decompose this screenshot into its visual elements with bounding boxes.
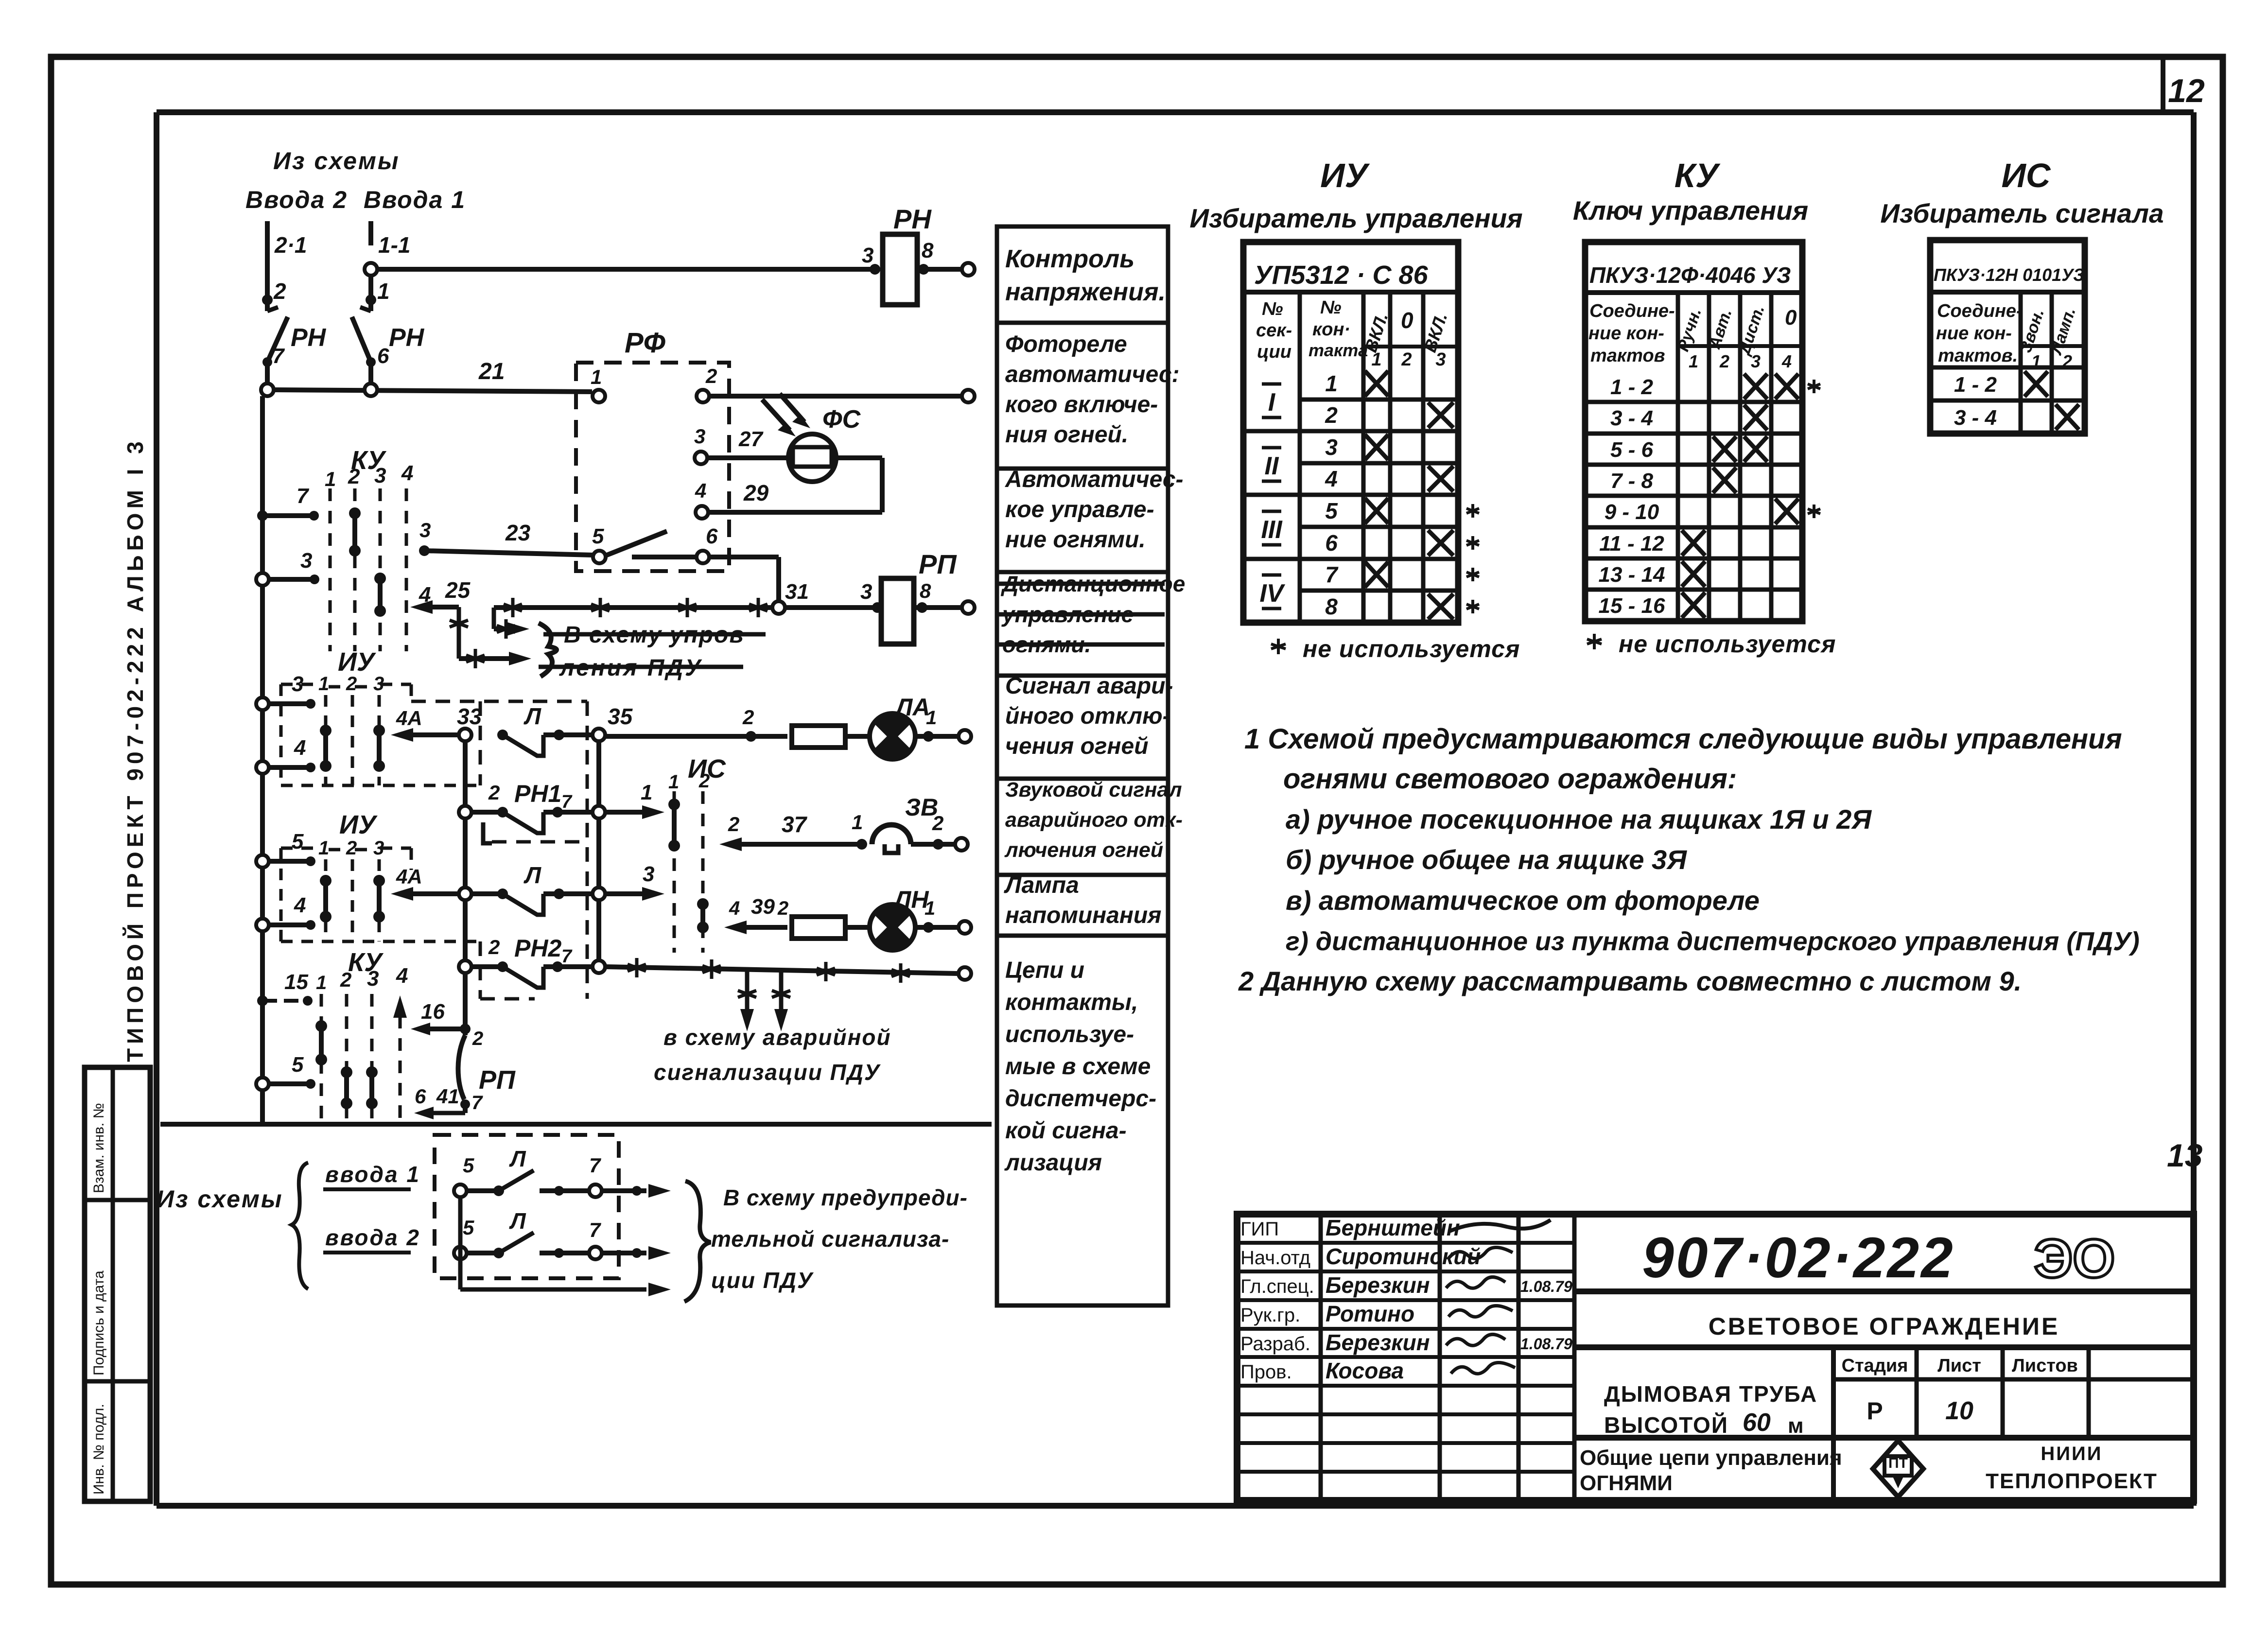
crossed text В схему управ bbox=[543, 622, 766, 648]
crossed text ления ПДУ bbox=[539, 655, 743, 681]
svg-text:1 - 2: 1 - 2 bbox=[1954, 373, 1997, 397]
selector ИУ group 2 label bbox=[339, 810, 378, 839]
text В схему предупреди- bbox=[723, 1185, 968, 1210]
svg-text:23: 23 bbox=[505, 520, 531, 545]
svg-text:2: 2 bbox=[1401, 349, 1412, 370]
svg-text:Нач.отд: Нач.отд bbox=[1240, 1247, 1310, 1269]
selector ИУ group 1 label bbox=[338, 647, 376, 677]
svg-text:2: 2 bbox=[340, 968, 351, 991]
svg-text:3 - 4: 3 - 4 bbox=[1610, 406, 1653, 430]
svg-text:РП: РП bbox=[479, 1065, 516, 1095]
svg-text:№: № bbox=[1320, 297, 1342, 318]
svg-text:В схему предупреди-: В схему предупреди- bbox=[723, 1185, 968, 1210]
svg-text:1-1: 1-1 bbox=[378, 232, 410, 258]
svg-text:2: 2 bbox=[346, 673, 357, 695]
column text Фотореле bbox=[1005, 331, 1180, 448]
svg-text:Березкин: Березкин bbox=[1326, 1272, 1430, 1298]
svg-text:КУ: КУ bbox=[1675, 157, 1721, 194]
wire ФС to pin 4 (29) bbox=[695, 458, 882, 519]
table КУ title bbox=[1573, 157, 1808, 226]
title block signature table bbox=[1237, 1214, 1574, 1500]
svg-text:сек-: сек- bbox=[1256, 320, 1292, 341]
svg-text:1: 1 bbox=[318, 837, 329, 859]
svg-text:4: 4 bbox=[401, 461, 413, 485]
svg-text:ние кон-: ние кон- bbox=[1588, 323, 1664, 344]
svg-text:5: 5 bbox=[1325, 498, 1338, 523]
svg-text:5: 5 bbox=[592, 524, 604, 548]
input 1 contact Л bbox=[454, 1146, 671, 1198]
КУ1 dashed contact columns bbox=[325, 461, 413, 651]
svg-text:СВЕТОВОЕ ОГРАЖДЕНИЕ: СВЕТОВОЕ ОГРАЖДЕНИЕ bbox=[1709, 1313, 2060, 1340]
L mark under РН1 bbox=[483, 822, 492, 843]
svg-text:1: 1 bbox=[1371, 349, 1381, 370]
note 1 line 1 bbox=[1244, 723, 2122, 755]
svg-text:Лампа: Лампа bbox=[1004, 872, 1079, 898]
contact РП bbox=[414, 1035, 516, 1119]
input bypass wire bbox=[460, 1197, 671, 1296]
svg-text:ЛА: ЛА bbox=[894, 694, 930, 721]
svg-text:огнями светового ограждения:: огнями светового ограждения: bbox=[1283, 763, 1737, 795]
schematic bottom bus line bbox=[160, 1122, 992, 1127]
selector ИС label bbox=[688, 754, 726, 783]
brace { inputs bbox=[292, 1163, 308, 1289]
svg-text:7: 7 bbox=[272, 344, 285, 368]
svg-text:Лист: Лист bbox=[1937, 1356, 1981, 1376]
footnote КУ bbox=[1587, 630, 1836, 658]
table КУ bbox=[1585, 242, 1820, 621]
label Ввода 1 bbox=[364, 186, 466, 213]
svg-text:Бернштейн: Бернштейн bbox=[1326, 1215, 1460, 1240]
svg-text:4: 4 bbox=[695, 479, 706, 502]
label ввода 1 bbox=[323, 1162, 420, 1189]
resistor (ЛН row) bbox=[792, 917, 870, 939]
contact РН2 bbox=[459, 935, 593, 988]
title block document number 907-02-222 ЭО bbox=[1574, 1226, 2194, 1291]
svg-text:11 - 12: 11 - 12 bbox=[1599, 532, 1664, 556]
wire to lamp ЛА bbox=[605, 706, 787, 742]
svg-text:3: 3 bbox=[862, 244, 873, 267]
svg-text:33: 33 bbox=[457, 704, 482, 729]
svg-text:Л: Л bbox=[509, 1208, 526, 1234]
КУ1 contact 3 bbox=[374, 573, 386, 617]
svg-text:3: 3 bbox=[694, 425, 705, 448]
ИУ2 contact column 3 bbox=[373, 875, 385, 922]
svg-text:ние огнями.: ние огнями. bbox=[1005, 527, 1146, 553]
lamp ЛН bbox=[870, 886, 971, 950]
svg-text:кой сигна-: кой сигна- bbox=[1005, 1118, 1127, 1144]
svg-text:Общие цепи управления: Общие цепи управления bbox=[1580, 1446, 1842, 1470]
branch wire 7 bbox=[257, 484, 319, 521]
svg-text:ции ПДУ: ции ПДУ bbox=[711, 1268, 814, 1293]
svg-text:4: 4 bbox=[1325, 466, 1338, 491]
svg-text:НИИИ: НИИИ bbox=[2041, 1443, 2102, 1464]
svg-text:16: 16 bbox=[421, 1000, 445, 1024]
svg-text:лючения огней: лючения огней bbox=[1004, 838, 1163, 862]
wire 4А (lower) bbox=[391, 865, 459, 901]
svg-text:41: 41 bbox=[436, 1085, 459, 1108]
svg-text:I: I bbox=[1268, 388, 1276, 417]
svg-text:7: 7 bbox=[1325, 562, 1339, 587]
svg-text:аварийного отк-: аварийного отк- bbox=[1005, 808, 1183, 832]
svg-text:РН: РН bbox=[389, 324, 425, 352]
photocell ФС bbox=[762, 394, 861, 482]
svg-text:Избиратель управления: Избиратель управления bbox=[1189, 203, 1522, 233]
bus wire 21 bbox=[261, 359, 592, 396]
svg-text:тельной сигнализа-: тельной сигнализа- bbox=[711, 1226, 949, 1252]
svg-text:Соедине-: Соедине- bbox=[1589, 301, 1675, 321]
svg-text:ЭО: ЭО bbox=[2034, 1228, 2115, 1289]
svg-text:7: 7 bbox=[589, 1154, 601, 1177]
svg-text:7: 7 bbox=[589, 1218, 601, 1241]
svg-text:2: 2 bbox=[1719, 351, 1729, 371]
svg-text:2: 2 bbox=[698, 770, 710, 792]
vertical link bus x1232 bbox=[596, 741, 601, 967]
svg-text:1: 1 bbox=[325, 468, 336, 490]
contact Л (upper) bbox=[497, 704, 593, 756]
svg-text:13: 13 bbox=[2167, 1137, 2202, 1173]
left margin table bbox=[85, 1067, 150, 1501]
svg-text:2: 2 bbox=[777, 898, 788, 919]
table ИУ title bbox=[1189, 157, 1522, 233]
alarm branch down 1 bbox=[738, 970, 756, 1031]
column text Звуковой сигнал bbox=[1004, 778, 1183, 862]
svg-text:1: 1 bbox=[925, 898, 935, 919]
column text Контроль напряжения bbox=[1005, 245, 1166, 306]
svg-text:ЛН: ЛН bbox=[893, 886, 929, 913]
contact Л (lower) bbox=[459, 863, 593, 915]
svg-text:Р: Р bbox=[1867, 1397, 1883, 1425]
wire feeder 1 vertical bbox=[365, 221, 410, 311]
svg-text:ДЫМОВАЯ ТРУБА: ДЫМОВАЯ ТРУБА bbox=[1604, 1381, 1817, 1407]
svg-text:Инв. № подл.: Инв. № подл. bbox=[91, 1404, 107, 1495]
svg-text:ВЫСОТОЙ: ВЫСОТОЙ bbox=[1604, 1412, 1728, 1438]
svg-text:Сиротинский: Сиротинский bbox=[1326, 1244, 1481, 1269]
svg-text:ние кон-: ние кон- bbox=[1936, 323, 2012, 344]
inner drawing frame bbox=[157, 112, 2194, 1506]
svg-text:8: 8 bbox=[922, 239, 934, 262]
svg-text:ИУ: ИУ bbox=[339, 810, 378, 839]
КУ2 contact col1 bbox=[315, 1020, 327, 1065]
column text Лампа напоминания bbox=[1004, 872, 1161, 928]
svg-text:1 Схемой предусматриваются: 1 Схемой предусматриваются следующие вид… bbox=[1244, 723, 2122, 755]
svg-text:3: 3 bbox=[1751, 351, 1761, 371]
title block frame bbox=[1237, 1214, 2194, 1500]
svg-text:4: 4 bbox=[294, 736, 306, 760]
key КУ group 2 label bbox=[348, 948, 384, 977]
svg-text:Фотореле: Фотореле bbox=[1005, 331, 1127, 357]
svg-text:Подпись и дата: Подпись и дата bbox=[91, 1271, 107, 1375]
description column boxes bbox=[997, 226, 1168, 1305]
note 1 item в bbox=[1286, 885, 1760, 916]
svg-text:4: 4 bbox=[419, 583, 431, 607]
branch wire 4 (ИУ1) bbox=[256, 736, 315, 774]
branch wire 4 (ИУ2) bbox=[256, 893, 315, 931]
svg-text:РФ: РФ bbox=[625, 327, 666, 359]
svg-text:Пров.: Пров. bbox=[1240, 1361, 1292, 1383]
КУ1 contact 2 bbox=[349, 507, 361, 557]
svg-text:4: 4 bbox=[396, 964, 408, 988]
svg-text:II: II bbox=[1265, 452, 1279, 480]
svg-text:не используется: не используется bbox=[1303, 635, 1520, 662]
relay coil РП bbox=[881, 549, 975, 644]
svg-text:2: 2 bbox=[742, 706, 754, 729]
svg-text:Стадия: Стадия bbox=[1842, 1356, 1908, 1376]
node РН2 right bbox=[593, 960, 605, 973]
label Ввода 2 bbox=[245, 186, 348, 213]
РФ pin 1 bbox=[591, 365, 605, 402]
wire 31 to relay РП bbox=[785, 580, 883, 613]
svg-text:7: 7 bbox=[561, 946, 573, 967]
svg-text:ния огней.: ния огней. bbox=[1005, 422, 1128, 448]
svg-text:Л: Л bbox=[509, 1146, 526, 1171]
ИУ1 contact column 3 bbox=[373, 725, 385, 772]
svg-text:ввода 1: ввода 1 bbox=[325, 1162, 420, 1187]
footnote ИУ bbox=[1271, 635, 1520, 662]
svg-text:3: 3 bbox=[1435, 349, 1446, 370]
svg-text:2: 2 bbox=[705, 365, 717, 387]
table ИС bbox=[1930, 240, 2085, 434]
svg-text:2·1: 2·1 bbox=[274, 232, 307, 258]
svg-text:3: 3 bbox=[300, 549, 312, 573]
ИС contact column 2 bbox=[697, 898, 709, 933]
svg-text:РН: РН bbox=[893, 204, 932, 234]
svg-text:Л: Л bbox=[523, 863, 541, 888]
svg-text:м: м bbox=[1788, 1414, 1804, 1438]
svg-text:используе-: используе- bbox=[1005, 1022, 1134, 1047]
КУ2 dashed columns 1-4 bbox=[316, 964, 408, 1124]
svg-text:не используется: не используется bbox=[1619, 630, 1836, 658]
svg-text:РН1: РН1 bbox=[514, 780, 561, 807]
svg-text:1: 1 bbox=[318, 673, 329, 695]
РФ pin 2 wire bbox=[697, 365, 975, 402]
svg-text:2: 2 bbox=[488, 936, 500, 958]
branch wire 5 (ИУ2) bbox=[256, 830, 315, 868]
key КУ group 1 label bbox=[351, 446, 386, 475]
svg-text:7: 7 bbox=[471, 1092, 483, 1114]
svg-text:3: 3 bbox=[643, 862, 654, 886]
svg-text:3 - 4: 3 - 4 bbox=[1954, 406, 1997, 430]
label Из схемы (top) bbox=[273, 147, 400, 174]
svg-text:диспетчерс-: диспетчерс- bbox=[1005, 1086, 1156, 1112]
table ИС title bbox=[1880, 157, 2163, 228]
branch wire 15 bbox=[257, 970, 313, 1006]
table ИУ bbox=[1243, 242, 1479, 623]
wire 16 bbox=[411, 1000, 483, 1049]
svg-text:Листов: Листов bbox=[2012, 1356, 2078, 1376]
wire 4А-33 (upper) bbox=[391, 704, 482, 742]
svg-text:2 Данную схему рассматривать: 2 Данную схему рассматривать совместно с… bbox=[1238, 966, 2022, 996]
svg-text:Гл.спец.: Гл.спец. bbox=[1240, 1276, 1314, 1297]
svg-text:4: 4 bbox=[1781, 351, 1792, 371]
svg-text:1.08.79: 1.08.79 bbox=[1520, 1335, 1572, 1353]
note 1 item б bbox=[1286, 844, 1687, 875]
ИС dashed columns bbox=[668, 770, 710, 953]
svg-text:Рук.гр.: Рук.гр. bbox=[1240, 1305, 1300, 1326]
organization name bbox=[1986, 1443, 2158, 1493]
svg-text:Из схемы: Из схемы bbox=[157, 1185, 283, 1213]
svg-text:Л: Л bbox=[523, 704, 541, 730]
svg-text:6: 6 bbox=[377, 344, 389, 368]
column text Сигнал аварийного bbox=[1005, 673, 1173, 759]
svg-text:4: 4 bbox=[294, 893, 306, 917]
svg-text:7: 7 bbox=[297, 484, 310, 508]
svg-text:такта: такта bbox=[1308, 340, 1368, 360]
svg-text:3: 3 bbox=[367, 967, 379, 991]
svg-text:РН2: РН2 bbox=[514, 935, 561, 962]
svg-text:йного отклю-: йного отклю- bbox=[1005, 703, 1170, 729]
svg-text:Ключ управления: Ключ управления bbox=[1573, 195, 1808, 226]
svg-text:чения огней: чения огней bbox=[1005, 733, 1149, 759]
title block stage-sheet header bbox=[1833, 1347, 2194, 1438]
relay РФ dashed box bbox=[576, 327, 729, 571]
svg-text:4: 4 bbox=[729, 898, 740, 919]
node 35 bbox=[593, 704, 633, 741]
wire 31 star line bbox=[494, 598, 772, 639]
left margin label Подпись и дата bbox=[91, 1271, 107, 1375]
svg-text:25: 25 bbox=[445, 577, 471, 603]
wire 23 to РФ pin5 bbox=[419, 519, 593, 556]
svg-text:напоминания: напоминания bbox=[1005, 903, 1161, 928]
svg-text:в схему аварийной: в схему аварийной bbox=[663, 1025, 891, 1050]
svg-text:2: 2 bbox=[728, 813, 739, 835]
wire 37 to bell bbox=[719, 811, 867, 851]
svg-text:Избиратель сигнала: Избиратель сигнала bbox=[1880, 198, 2163, 228]
resistor (ЛА row) bbox=[792, 726, 870, 748]
svg-text:мые в схеме: мые в схеме bbox=[1005, 1054, 1151, 1079]
svg-text:27: 27 bbox=[738, 427, 764, 451]
vertical link bus x957 bbox=[463, 741, 468, 1035]
title block СВЕТОВОЕ ОГРАЖДЕНИЕ bbox=[1574, 1313, 2194, 1347]
svg-text:6: 6 bbox=[415, 1085, 426, 1108]
svg-text:5: 5 bbox=[463, 1154, 474, 1177]
svg-text:Автоматичес-: Автоматичес- bbox=[1005, 467, 1184, 492]
svg-text:ТЕПЛОПРОЕКТ: ТЕПЛОПРОЕКТ bbox=[1986, 1469, 2158, 1493]
label ввода 2 bbox=[323, 1225, 420, 1253]
svg-text:21: 21 bbox=[478, 359, 505, 384]
svg-text:ТИПОВОЙ ПРОЕКТ 907-02-222 АЛЬ: ТИПОВОЙ ПРОЕКТ 907-02-222 АЛЬБОМ I 3 bbox=[122, 437, 148, 1062]
handwritten page 13 bbox=[2167, 1137, 2202, 1173]
svg-text:1: 1 bbox=[852, 811, 863, 834]
label Из схемы (bottom) bbox=[157, 1185, 283, 1213]
svg-text:тактов: тактов bbox=[1590, 346, 1665, 366]
wire 4-25 tap bbox=[410, 577, 531, 668]
svg-text:лизация: лизация bbox=[1004, 1150, 1102, 1176]
svg-text:37: 37 bbox=[782, 812, 808, 837]
svg-text:УП5312 · С 86: УП5312 · С 86 bbox=[1254, 261, 1429, 290]
brace } to warning bbox=[684, 1181, 711, 1302]
svg-text:5: 5 bbox=[292, 1053, 304, 1077]
column text Дистанционное (crossed) bbox=[998, 571, 1185, 657]
node Л right + arrow 3 bbox=[593, 862, 664, 901]
svg-text:г) дистанционное из пункта: г) дистанционное из пункта диспетчерског… bbox=[1286, 927, 2140, 956]
svg-text:12: 12 bbox=[2168, 72, 2205, 109]
svg-text:5: 5 bbox=[292, 830, 304, 853]
svg-text:10: 10 bbox=[1945, 1397, 1973, 1425]
svg-text:напряжения.: напряжения. bbox=[1005, 278, 1166, 306]
svg-text:ввода 2: ввода 2 bbox=[325, 1225, 420, 1250]
svg-text:Березкин: Березкин bbox=[1326, 1330, 1430, 1355]
svg-text:1 - 2: 1 - 2 bbox=[1610, 375, 1654, 399]
svg-text:РН: РН bbox=[291, 324, 327, 352]
ИС contact column 1 bbox=[668, 799, 680, 852]
left margin label Взам. инв. № bbox=[91, 1103, 107, 1193]
svg-text:3: 3 bbox=[419, 519, 431, 541]
svg-text:29: 29 bbox=[743, 480, 769, 505]
ИУ1 dashed columns 1-2-3 bbox=[281, 673, 480, 785]
left bus vertical bbox=[260, 396, 265, 1124]
switch РН (feeder 1) bbox=[352, 307, 425, 390]
alarm tap star wire bbox=[605, 958, 971, 983]
wire 4-39-2 to lamp ЛН bbox=[724, 895, 788, 934]
svg-text:ОГНЯМИ: ОГНЯМИ bbox=[1580, 1471, 1673, 1495]
svg-text:ции: ции bbox=[1257, 342, 1291, 362]
svg-text:5 - 6: 5 - 6 bbox=[1610, 438, 1654, 462]
svg-text:7: 7 bbox=[561, 792, 573, 812]
svg-text:2: 2 bbox=[932, 812, 943, 835]
svg-text:8: 8 bbox=[920, 579, 931, 602]
inputs dashed box bbox=[435, 1135, 619, 1278]
ИУ1 contact column 1 bbox=[320, 725, 331, 772]
branch wire 5 (bottom) bbox=[256, 1053, 315, 1090]
column text Цепи и контакты bbox=[1004, 957, 1156, 1176]
ИУ2 contact column 1 bbox=[320, 875, 331, 922]
КУ2 contact col2 bbox=[341, 1066, 352, 1109]
svg-text:ГИП: ГИП bbox=[1240, 1218, 1279, 1240]
organization logo bbox=[1873, 1441, 1923, 1497]
svg-text:Разраб.: Разраб. bbox=[1240, 1333, 1310, 1355]
svg-text:2: 2 bbox=[488, 781, 500, 804]
note 1 line 2 bbox=[1283, 763, 1737, 795]
wire to relay РН bbox=[377, 264, 880, 275]
svg-text:Сигнал авари-: Сигнал авари- bbox=[1005, 673, 1173, 699]
branch wire 3 (ИУ1) bbox=[256, 672, 315, 710]
column text Автоматическое управление bbox=[1005, 467, 1184, 553]
svg-text:0: 0 bbox=[1401, 308, 1413, 333]
svg-text:3: 3 bbox=[860, 580, 872, 604]
svg-text:IV: IV bbox=[1259, 579, 1285, 608]
title block stage-sheet values bbox=[1867, 1397, 1973, 1425]
svg-text:31: 31 bbox=[785, 580, 809, 604]
svg-text:907·02·222: 907·02·222 bbox=[1642, 1226, 1955, 1290]
svg-text:4А: 4А bbox=[396, 865, 422, 888]
svg-text:ПКУЗ·12Н 0101УЗ: ПКУЗ·12Н 0101УЗ bbox=[1934, 265, 2084, 285]
svg-text:Косова: Косова bbox=[1326, 1358, 1404, 1383]
svg-text:9 - 10: 9 - 10 bbox=[1605, 500, 1659, 524]
svg-text:ИУ: ИУ bbox=[338, 647, 376, 677]
svg-text:Ввода 1: Ввода 1 bbox=[364, 186, 466, 213]
svg-text:в) автоматическое от фоторел: в) автоматическое от фотореле bbox=[1286, 885, 1760, 916]
brace to ПДУ control bbox=[539, 623, 557, 677]
svg-text:Взам. инв. №: Взам. инв. № bbox=[91, 1103, 107, 1193]
note 1 item г bbox=[1286, 927, 2140, 956]
svg-text:сигнализации ПДУ: сигнализации ПДУ bbox=[654, 1060, 881, 1085]
РФ pin 5 switch pin 6 bbox=[592, 524, 718, 563]
wire pin 6 to node 31 bbox=[709, 557, 779, 601]
relay coil РН bbox=[862, 204, 975, 305]
contact РН1 bbox=[459, 780, 593, 833]
svg-text:а) ручное посекционное на я: а) ручное посекционное на ящиках 1Я и 2Я bbox=[1286, 804, 1872, 835]
wire feeder 2 vertical bbox=[262, 221, 307, 311]
svg-text:13 - 14: 13 - 14 bbox=[1599, 563, 1665, 587]
note 1 item а bbox=[1286, 804, 1872, 835]
КУ2 contact col3 bbox=[366, 1066, 378, 1109]
svg-text:кон·: кон· bbox=[1312, 319, 1350, 340]
svg-text:1: 1 bbox=[668, 771, 679, 793]
svg-text:б) ручное общее на ящике 3: б) ручное общее на ящике 3Я bbox=[1286, 844, 1687, 875]
svg-text:60: 60 bbox=[1743, 1409, 1771, 1437]
svg-text:автоматичес:: автоматичес: bbox=[1005, 362, 1180, 387]
svg-text:Ввода 2: Ввода 2 bbox=[245, 186, 348, 213]
